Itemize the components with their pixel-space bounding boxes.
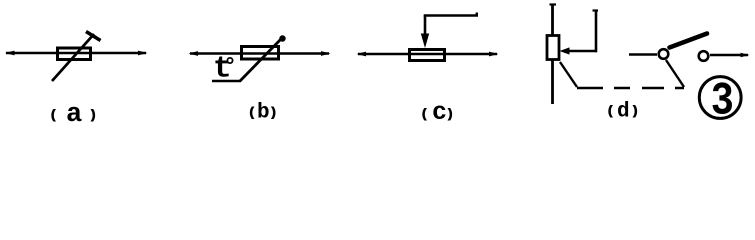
wiper top horizontal wire (c) [424,14,478,17]
arrowhead right end of wire (b) [321,51,331,56]
switch left contact circle (d) [659,49,669,59]
svg-text:b: b [257,102,270,125]
switch blade (d) [670,34,708,48]
arrowhead right end of wire (a) [138,51,148,56]
arrowhead left end of wire (b) [189,51,199,56]
mechanical link diagonal up to switch (d) [666,60,684,87]
T-bar at tip of diagonal (a) [86,32,101,41]
switch right lead (d) [710,54,748,57]
svg-text:c: c [432,98,447,127]
svg-text:t: t [213,52,232,87]
thermistor diagonal (b) [240,38,282,81]
switch right contact circle (d) [699,51,709,61]
wiper vertical line (c) [424,16,427,39]
diagonal foot (b) [212,80,241,83]
svg-text:(: ( [421,108,428,122]
mechanical link dashed horizontal (d) [577,87,684,89]
tick at top of lead (d) [550,3,557,5]
svg-text:a: a [66,100,82,130]
arrowhead left end of wire (c) [357,52,367,57]
wiper vertical line (d) [595,10,598,52]
svg-text:3: 3 [711,76,734,128]
tick at right end of top wire (c) [476,13,478,17]
bottom lead wire (d) [551,60,554,105]
mechanical link dashed: diagonal from pot corner (d) [560,62,577,87]
switch left lead (d) [629,53,657,56]
svg-text:(: ( [248,106,255,120]
dot at diagonal tip (b) [279,35,285,41]
svg-text:): ) [447,108,454,122]
wire (c) horizontal lead [358,53,497,56]
arrowhead right end of wire (c) [489,52,499,57]
tick at top of wiper (d) [593,9,599,11]
svg-text:): ) [632,105,639,119]
svg-text:d: d [617,101,630,124]
wiper arrowhead pointing left (d) [560,47,570,54]
wiper horizontal line (d) [568,50,596,53]
wiper arrowhead pointing down (c) [421,34,429,49]
wire (a) horizontal lead [6,52,146,55]
arrowhead right end of switch lead (d) [741,53,750,57]
svg-text:): ) [90,109,97,123]
adjustment diagonal (a) [52,34,94,81]
figure number circle 3 [699,77,741,119]
resistor body (c) rectangle [410,50,445,61]
resistor R body (a) rectangle [58,48,91,60]
svg-text:): ) [270,106,277,120]
top lead wire (d) [551,4,554,35]
resistor body (d) vertical rectangle [547,36,559,60]
resistor body (b) rectangle [242,47,279,60]
wire (b) horizontal lead [190,52,329,55]
svg-text:(: ( [607,105,614,119]
svg-text:(: ( [50,109,57,123]
arrowhead left end of wire (a) [5,51,15,56]
